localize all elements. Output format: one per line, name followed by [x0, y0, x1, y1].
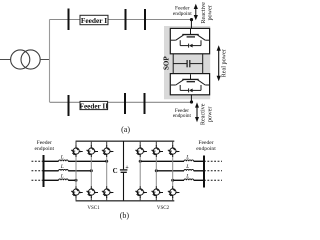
svg-text:endpoint: endpoint	[173, 113, 192, 119]
IGBT T10 bottom leg4	[135, 186, 147, 198]
IGBT T4 top leg4	[135, 145, 147, 157]
IGBT T3 top leg3	[102, 145, 114, 157]
wire: converter 2 to junction	[190, 95, 192, 102]
wire: DC top rail	[76, 140, 175, 142]
wire: rail stubs to IGBTs	[76, 141, 173, 201]
converter box 1 (VSC symbol)	[170, 28, 209, 53]
svg-text:C: C	[113, 167, 118, 175]
wire: phase c right from leg6	[173, 179, 184, 181]
svg-text:SOP: SOP	[162, 56, 170, 70]
svg-text:L: L	[185, 155, 189, 161]
svg-text:L: L	[60, 155, 64, 161]
wire: phase a right from leg4	[140, 160, 184, 162]
wire: DC link left vertical	[172, 54, 174, 74]
IGBT T5 top leg5	[151, 145, 163, 157]
svg-text:power: power	[207, 5, 214, 20]
busbar on Feeder II at substation	[68, 95, 70, 116]
svg-text:+: +	[125, 165, 128, 171]
wire: DC link right vertical	[202, 54, 204, 74]
wire: phase c left with inductor	[43, 179, 58, 181]
wire: Feeder II horizontal line	[50, 101, 192, 103]
inductor L (right phase c)	[184, 179, 194, 180]
wire: DC mid branch vertical bottom	[123, 173, 125, 201]
svg-text:L: L	[60, 174, 64, 180]
transformer T1 left winding	[11, 50, 30, 69]
node: phase b to leg2	[90, 169, 93, 172]
svg-text:Feeder II: Feeder II	[80, 103, 109, 111]
node: phase a to leg3	[105, 160, 108, 163]
node: phase b to leg5	[155, 169, 158, 172]
leg6 gray vertical	[172, 157, 174, 187]
inductor L (left phase a)	[59, 160, 69, 161]
wire: dashed 3-phase stubs left	[32, 161, 44, 180]
wire: DC mid branch vertical top	[123, 141, 125, 169]
svg-text:Real power: Real power	[220, 49, 227, 77]
wire: phase b left with inductor	[43, 170, 58, 172]
busbar feeder endpoint right	[203, 156, 205, 188]
svg-text:Feeder I: Feeder I	[81, 16, 107, 25]
svg-text:L: L	[185, 164, 189, 170]
svg-text:endpoint: endpoint	[35, 146, 55, 152]
IGBT T9 bottom leg3	[102, 186, 114, 198]
arrow: reactive power top (double headed)	[194, 4, 198, 20]
capacitor C (DC link)	[120, 169, 128, 171]
IGBT U2 inside converter box 2	[171, 74, 209, 92]
Feeder I label box	[80, 15, 108, 24]
wire: dashed 3-phase stubs right	[204, 161, 222, 180]
SOP enclosure (gray)	[164, 26, 210, 99]
IGBT T11 bottom leg5	[151, 186, 163, 198]
busbar on Feeder II mid 2	[144, 93, 146, 114]
IGBT U1 inside converter box 1	[171, 29, 209, 48]
inductor L (left phase c)	[59, 179, 69, 180]
node: phase a to leg4	[139, 160, 142, 163]
wire: phase b right from leg5	[156, 170, 184, 172]
node: phase c to leg6	[171, 179, 174, 182]
svg-text:L: L	[185, 174, 189, 180]
wire: substation trunk vertical	[49, 20, 51, 103]
svg-text:power: power	[206, 107, 213, 122]
leg1 gray vertical	[75, 157, 77, 187]
inductor L (left phase b)	[59, 169, 69, 170]
leg5 gray vertical	[155, 157, 157, 187]
node: Feeder I endpoint junction	[190, 18, 193, 21]
wire: source lead into transformer	[0, 59, 11, 61]
svg-text:endpoint: endpoint	[173, 11, 192, 17]
svg-text:(a): (a)	[121, 125, 130, 134]
inductor L (right phase b)	[184, 169, 194, 170]
IGBT T12 bottom leg6	[168, 186, 180, 198]
arrow: real power (double headed)	[217, 45, 221, 81]
svg-text:VSC1: VSC1	[87, 206, 100, 211]
IGBT T7 bottom leg1	[71, 186, 83, 198]
inductor L (right phase a)	[184, 160, 194, 161]
IGBT T1 top leg1	[71, 145, 83, 157]
node: phase c to leg1	[75, 179, 78, 182]
svg-text:(b): (b)	[120, 211, 130, 220]
svg-text:L: L	[60, 164, 64, 170]
wire: phase a left with inductor	[43, 160, 58, 162]
svg-text:endpoint: endpoint	[196, 146, 216, 152]
svg-text:VSC2: VSC2	[157, 206, 170, 211]
IGBT T6 top leg6	[168, 145, 180, 157]
busbar on Feeder I mid 2	[144, 9, 146, 30]
arrow: reactive power bottom (double headed)	[195, 102, 199, 122]
busbar on Feeder II mid 1	[124, 93, 126, 114]
transformer T1 right winding	[21, 50, 40, 69]
IGBT T2 top leg2	[86, 145, 98, 157]
IGBT T8 bottom leg2	[86, 186, 98, 198]
busbar on Feeder I at substation	[68, 9, 70, 31]
leg4 gray vertical	[139, 157, 141, 187]
busbar feeder endpoint left	[43, 155, 45, 187]
Feeder II label box	[80, 101, 108, 109]
svg-text:Reactive: Reactive	[199, 103, 206, 125]
busbar on Feeder I mid 1	[125, 9, 127, 30]
capacitor DC link (SOP)	[173, 60, 203, 67]
leg2 gray vertical	[90, 157, 92, 187]
node: Feeder II endpoint junction	[190, 100, 193, 103]
wire: DC bottom rail	[76, 200, 175, 202]
converter box 2 (VSC symbol)	[170, 74, 209, 95]
wire: transformer to trunk	[40, 59, 49, 61]
wire: junction to converter 1	[190, 20, 192, 29]
leg3 gray vertical	[106, 157, 108, 187]
wire: Feeder I horizontal line	[50, 19, 192, 21]
